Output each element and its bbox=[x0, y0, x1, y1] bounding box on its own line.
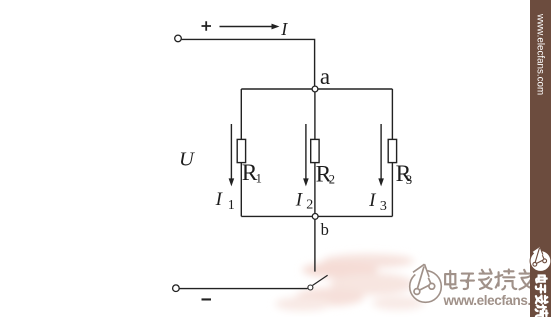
svg-text:2: 2 bbox=[329, 173, 335, 187]
svg-text:www.elecfans.com: www.elecfans.com bbox=[535, 13, 546, 95]
svg-text:1: 1 bbox=[228, 198, 235, 213]
svg-text:3: 3 bbox=[406, 173, 412, 187]
svg-text:a: a bbox=[320, 64, 330, 89]
svg-text:b: b bbox=[321, 220, 329, 239]
svg-text:I: I bbox=[368, 190, 377, 211]
svg-text:U: U bbox=[179, 149, 195, 171]
svg-text:I: I bbox=[295, 190, 304, 211]
svg-text:2: 2 bbox=[306, 198, 313, 213]
svg-text:3: 3 bbox=[380, 199, 387, 214]
svg-text:I: I bbox=[280, 19, 288, 39]
svg-text:I: I bbox=[215, 189, 224, 210]
svg-text:1: 1 bbox=[256, 172, 262, 186]
